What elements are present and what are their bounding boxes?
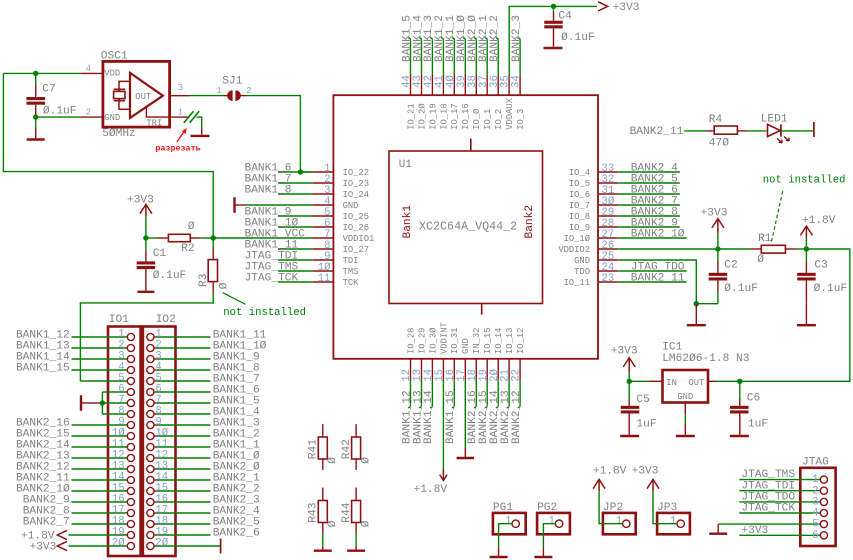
svg-text:C2: C2	[724, 259, 737, 271]
IO2 pin 8	[147, 405, 162, 417]
U1 top pin 38 IO_0	[467, 75, 482, 130]
CPLD U1 XC2C64A_VQ44_2 outer body	[333, 95, 598, 359]
IO2 pin 10	[147, 427, 169, 439]
svg-text:BANK1_15: BANK1_15	[16, 363, 70, 375]
net label BANK1_10 at IO2 pin 2	[157, 341, 267, 353]
svg-text:Bank1: Bank1	[402, 205, 414, 239]
IO2 pin 11	[147, 438, 168, 450]
U1 bottom pin 17 GND	[456, 338, 471, 382]
svg-text:IO_21: IO_21	[406, 103, 416, 129]
net label BANK1_9 at IO2 pin 3	[157, 352, 260, 364]
svg-text:R4: R4	[709, 114, 723, 126]
svg-text:2Ø: 2Ø	[155, 537, 168, 549]
svg-text:BANK2_6: BANK2_6	[213, 528, 260, 540]
svg-text:R2: R2	[181, 243, 194, 255]
net label JTAG_TDO at JTAG pin 3	[739, 492, 820, 504]
U1 right pin 30 IO_7	[569, 196, 618, 211]
ground below C7	[27, 117, 45, 139]
ground below R43	[314, 550, 332, 552]
IO1 pin 8	[118, 405, 134, 417]
JTAG pin 5	[812, 519, 827, 531]
test pad PG2 body	[537, 502, 570, 534]
net label BANK1_6 at IO2 pin 6	[157, 385, 260, 397]
svg-text:BANK2_7: BANK2_7	[23, 517, 70, 529]
wire R3 bottom to IO1 pin5	[80, 293, 213, 381]
net label BANK1_5 at U1 pin 44	[401, 15, 413, 75]
svg-text:1: 1	[549, 516, 555, 528]
ground below C2	[687, 304, 706, 326]
svg-text:R41: R41	[308, 439, 320, 459]
svg-text:IO_5: IO_5	[569, 179, 590, 189]
IO1 pin 4	[118, 361, 134, 373]
U1 Bank1 text	[402, 205, 414, 239]
ground at U1 pin17	[457, 380, 475, 458]
U1 right pin 27 IO_10	[564, 229, 619, 244]
junction SJ1 net at pin1	[298, 169, 303, 174]
+3V3 supply arrow at IO1 pin20	[29, 541, 127, 553]
U1 left pin 4 GND	[312, 196, 358, 211]
svg-text:PG2: PG2	[537, 502, 557, 514]
svg-text:IO_1Ø: IO_1Ø	[564, 234, 591, 244]
IO1 pin 18	[112, 515, 135, 527]
IO1 pin 3	[118, 350, 134, 362]
net label +3V3 at JTAG pin 6	[739, 525, 820, 537]
+3V3 supply arrow above C2	[701, 208, 728, 249]
bracket wire IO1 pins 6-8	[102, 392, 127, 414]
net label JTAG_TCK at JTAG pin 4	[739, 503, 820, 515]
net label BANK2_14 at IO1 pin 11	[16, 440, 127, 452]
ground below C4	[544, 47, 563, 49]
U1 top pin 40 IO_17	[445, 75, 460, 130]
svg-text:C6: C6	[747, 393, 760, 405]
resistor R2 0 ohm	[158, 221, 201, 255]
svg-text:+1.8V: +1.8V	[802, 215, 836, 227]
svg-text:5ØMHz: 5ØMHz	[102, 128, 136, 140]
svg-text:IN: IN	[666, 378, 677, 388]
svg-text:Ø: Ø	[188, 221, 195, 233]
capacitor C2 0.1uF	[709, 249, 758, 304]
svg-text:Ø: Ø	[757, 254, 764, 266]
svg-text:Ø.1uF: Ø.1uF	[43, 105, 77, 117]
svg-text:XC2C64A_VQ44_2: XC2C64A_VQ44_2	[419, 219, 517, 233]
U1 top pin 44 IO_21	[401, 75, 416, 130]
net label BANK2_14 at U1 pin 2Ø	[489, 380, 501, 444]
U1 left pin 1 IO_22	[312, 163, 369, 178]
ground below IC1 GND pin	[676, 415, 695, 436]
test pad JP3 body	[657, 502, 690, 534]
svg-text:IO_27: IO_27	[343, 245, 369, 255]
net label BANK1_2 at U1 pin 41	[434, 15, 446, 75]
svg-text:22: 22	[511, 369, 523, 382]
+3V3 supply arrow top right	[598, 2, 639, 14]
IO1 pin 19	[112, 526, 135, 538]
net label BANK1_8 at U1 pin 3	[245, 184, 313, 196]
net label BANK1_5 at IO2 pin 7	[157, 396, 260, 408]
capacitor C1 0.1uF	[137, 238, 187, 291]
svg-text:+3V3: +3V3	[632, 465, 659, 477]
net label BANK2_11 at IO1 pin 14	[16, 473, 127, 485]
label not installed right	[763, 175, 846, 187]
test pad JP2 body	[603, 502, 636, 534]
svg-text:R44: R44	[341, 502, 353, 522]
junction R2 left +3V3 C1	[143, 235, 148, 240]
svg-text:JTAG_TCK: JTAG_TCK	[245, 272, 299, 284]
svg-text:VDDIO1: VDDIO1	[343, 234, 375, 244]
wire end bar right of LED1	[813, 122, 815, 137]
junction at C7 top	[33, 71, 38, 76]
svg-text:+3V3: +3V3	[29, 541, 56, 553]
net label BANK2_5 at U1 pin 32	[618, 173, 680, 185]
IC1 GND pin	[684, 403, 686, 416]
red arrow razrezat	[177, 128, 187, 142]
svg-text:Ø: Ø	[360, 457, 372, 464]
callout line not installed R1	[772, 189, 784, 242]
svg-text:1: 1	[616, 516, 622, 528]
U1 right pin 28 IO_9	[569, 218, 618, 233]
svg-text:+3V3: +3V3	[611, 346, 638, 358]
svg-text:VDDAUX: VDDAUX	[505, 97, 515, 129]
svg-text:+3V3: +3V3	[127, 195, 154, 207]
net label BANK2_16 at IO1 pin 9	[16, 418, 127, 430]
svg-text:OUT: OUT	[688, 378, 704, 388]
junction R2 right R3 BANK1_VCC	[211, 235, 216, 240]
resistor R3 0 ohm not installed	[198, 238, 231, 293]
wire U1 pin25 GND to C2 ground	[618, 260, 718, 304]
svg-text:IO_23: IO_23	[343, 179, 369, 189]
IO2 pin 13	[147, 460, 168, 472]
IO1 pin 1	[118, 328, 134, 340]
ground below C1	[137, 291, 154, 293]
net label BANK1_13 at IO1 pin 2	[16, 341, 127, 353]
svg-text:IO_29: IO_29	[417, 328, 427, 354]
svg-text:1uF: 1uF	[636, 419, 656, 431]
net label JTAG_TDI at U1 pin 9	[245, 250, 313, 262]
U1 top pin 34 IO_3	[511, 75, 526, 130]
svg-text:IO_14: IO_14	[494, 328, 504, 354]
svg-text:C7: C7	[42, 83, 55, 95]
capacitor C5 1uF	[621, 381, 657, 435]
net label BANK2_8 at IO1 pin 17	[23, 506, 128, 518]
net label BANK1_14 at U1 pin 14	[423, 380, 435, 444]
ground below PG2	[534, 556, 552, 558]
svg-text:Ø: Ø	[327, 520, 339, 527]
wire PG2 to ground	[543, 524, 555, 556]
svg-text:IO_19: IO_19	[428, 103, 438, 129]
net label JTAG_TDO at U1 pin 24	[618, 261, 686, 273]
svg-text:Ø.1uF: Ø.1uF	[724, 283, 758, 295]
svg-text:2: 2	[812, 485, 818, 497]
junction IC1 IN C5	[627, 379, 632, 384]
svg-text:+3V3: +3V3	[741, 525, 768, 537]
net label BANK2_6 at U1 pin 31	[618, 184, 680, 196]
IO1 pin 5	[118, 372, 134, 384]
U1 right pin 26 VDDIO2	[558, 240, 618, 255]
svg-text:Ø: Ø	[327, 457, 339, 464]
svg-text:BANK1_8: BANK1_8	[245, 184, 292, 196]
svg-text:IO_2: IO_2	[494, 109, 504, 130]
svg-text:IO_9: IO_9	[569, 223, 590, 233]
svg-text:IO2: IO2	[156, 314, 176, 326]
IO2 pin 19	[147, 526, 168, 538]
svg-text:BANK2_2: BANK2_2	[489, 15, 501, 62]
svg-text:BANK2_11: BANK2_11	[630, 126, 684, 138]
svg-text:разрезать: разрезать	[155, 143, 200, 153]
svg-text:2Ø: 2Ø	[112, 537, 125, 549]
JTAG pin 6	[812, 530, 827, 542]
net label BANK1_2 at IO2 pin 10	[157, 429, 260, 441]
svg-text:+3V3: +3V3	[701, 208, 728, 220]
svg-text:VDD: VDD	[104, 69, 120, 79]
svg-text:1: 1	[216, 86, 221, 96]
U1 bottom pin 16 IO_31	[445, 328, 460, 382]
net label BANK2_2 at IO2 pin 15	[157, 484, 260, 496]
svg-text:IO_11: IO_11	[564, 278, 590, 288]
U1 bottom pin 22 IO_12	[511, 328, 526, 382]
U1 top pin 39 IO_16	[456, 75, 471, 130]
net label BANK1_0 at IO2 pin 12	[157, 451, 260, 463]
U1 right pin 32 IO_5	[569, 174, 618, 189]
IO2 pin 17	[147, 504, 168, 516]
IO2 pin 3	[147, 350, 162, 362]
IO1 pin 10	[112, 427, 135, 439]
svg-text:GND: GND	[104, 113, 120, 123]
net label BANK1_9 at U1 pin 5	[245, 206, 313, 218]
net label BANK2_7 at IO1 pin 18	[23, 517, 128, 529]
net label BANK1_3 at U1 pin 42	[423, 15, 435, 75]
U1 left pin 10 TMS	[312, 262, 358, 277]
net label BANK2_12 at U1 pin 22	[511, 380, 523, 444]
svg-text:IO_28: IO_28	[406, 328, 416, 354]
net label BANK2_2 at U1 pin 36	[489, 15, 501, 75]
U1 right pin 25 GND	[574, 251, 618, 266]
LED LED1	[761, 114, 790, 143]
svg-text:R42: R42	[341, 439, 353, 459]
U1 top pin 36 IO_2	[489, 75, 504, 130]
U1 bottom pin 13 IO_29	[412, 328, 427, 382]
net label BANK1_11 at IO2 pin 1	[157, 330, 267, 342]
ground at JTAG pin5	[709, 533, 727, 535]
resistor R1 0 ohm	[750, 233, 797, 266]
net label BANK2_12 at IO1 pin 13	[16, 462, 127, 474]
U1 right pin 29 IO_8	[569, 207, 618, 222]
svg-text:GND: GND	[343, 201, 359, 211]
net label JTAG_TDI at JTAG pin 2	[739, 480, 820, 492]
svg-text:GND: GND	[461, 338, 471, 354]
junction R1 right	[804, 246, 809, 251]
svg-text:LED1: LED1	[761, 114, 788, 126]
svg-text:OSC1: OSC1	[101, 51, 128, 63]
+3V3 supply arrow above IC1	[611, 346, 638, 382]
U1 bottom pin 14 IO_30	[423, 327, 438, 382]
svg-text:2: 2	[246, 86, 251, 96]
U1 bottom pin 12 IO_28	[401, 328, 416, 382]
solder jumper SJ1	[216, 76, 251, 101]
IO2 pin 15	[147, 482, 168, 494]
U1 left pin 3 IO_24	[312, 185, 369, 200]
IO2 pin 20	[147, 537, 169, 549]
U1 left pin 6 IO_26	[312, 218, 369, 233]
svg-text:IO_2Ø: IO_2Ø	[417, 103, 427, 130]
svg-text:JP2: JP2	[603, 502, 623, 514]
label not installed left	[223, 307, 306, 319]
test pad PG1 body	[493, 502, 526, 534]
net label BANK1_1 at IO2 pin 11	[157, 440, 260, 452]
svg-text:Ø.1uF: Ø.1uF	[561, 32, 595, 44]
net label BANK1_4 at U1 pin 43	[412, 15, 424, 75]
ground below C5	[620, 435, 639, 437]
capacitor C4 0.1uF	[544, 6, 594, 46]
capacitor C3 0.1uF	[797, 249, 847, 304]
+3V3 supply arrow above C1	[127, 195, 154, 239]
svg-text:IO_3: IO_3	[516, 109, 526, 130]
svg-text:Ø: Ø	[360, 520, 372, 527]
wire +3V3 to IC1 IN	[629, 380, 649, 382]
net label BANK1_15 at IO1 pin 4	[16, 363, 127, 375]
svg-text:not installed: not installed	[763, 175, 846, 187]
junction GND net below C2	[694, 301, 699, 306]
OSC1 pin 3 OUT	[170, 83, 190, 96]
net label BANK1_7 at IO2 pin 5	[157, 374, 260, 386]
svg-text:TMS: TMS	[343, 267, 359, 277]
U1 right pin 23 IO_11	[564, 273, 619, 288]
net label JTAG_TCK at U1 pin 11	[245, 272, 313, 284]
svg-text:IO_Ø: IO_Ø	[472, 108, 482, 130]
svg-text:C1: C1	[153, 248, 167, 260]
oscillator OSC1 50MHz	[101, 51, 170, 141]
svg-text:IO_12: IO_12	[516, 328, 526, 354]
net label BANK2_11 at U1 pin 23	[618, 272, 686, 284]
pin header IO2 body	[143, 314, 176, 556]
IO2 pin 18	[147, 515, 168, 527]
+1.8V supply arrow above C3	[800, 215, 835, 249]
IC1 OUT pin	[708, 380, 716, 382]
wire GND-side loop from OSC pin2 via left rail to R2/R3 junction	[3, 73, 213, 238]
wire +3V3 node to R2	[146, 237, 158, 239]
junction IC1 OUT C6	[737, 379, 742, 384]
net label BANK2_3 at IO2 pin 16	[157, 495, 260, 507]
net label BANK2_13 at IO1 pin 12	[16, 451, 127, 463]
svg-text:IO_17: IO_17	[450, 103, 460, 129]
svg-text:BANK2_12: BANK2_12	[511, 390, 523, 444]
svg-text:IO_16: IO_16	[461, 103, 471, 129]
svg-text:47Ø: 47Ø	[709, 137, 729, 149]
svg-text:BANK1_14: BANK1_14	[423, 390, 435, 444]
IO1 pin 2	[118, 339, 134, 351]
svg-text:LM62Ø6-1.8 N3: LM62Ø6-1.8 N3	[662, 353, 749, 365]
IO1 pin 11	[112, 438, 135, 450]
net label BANK1_3 at IO2 pin 9	[157, 418, 260, 430]
resistor R43 0 ohm	[308, 488, 340, 550]
svg-text:Ø.1uF: Ø.1uF	[814, 283, 848, 295]
net label BANK2_0 at IO2 pin 13	[157, 462, 260, 474]
svg-text:5: 5	[812, 519, 818, 531]
net label BANK2_16 at U1 pin 18	[467, 380, 479, 444]
IO1 pin 15	[112, 482, 135, 494]
OSC1 pin 2 GND	[81, 108, 103, 118]
svg-text:Bank2: Bank2	[524, 205, 536, 239]
U1 right pin 31 IO_6	[569, 185, 618, 200]
IO2 pin 6	[147, 383, 162, 395]
net label BANK2_5 at IO2 pin 18	[157, 517, 260, 529]
IO1 pin 9	[118, 416, 134, 428]
net label BANK1_VCC at U1 pin 7	[213, 228, 312, 240]
net label BANK1_12 at U1 pin 12	[401, 380, 413, 444]
U1 right pin 33 IO_4	[569, 163, 618, 178]
ground below C3	[797, 304, 816, 326]
U1 left pin 8 IO_27	[312, 240, 369, 255]
svg-text:TCK: TCK	[343, 278, 360, 288]
junction IO1 pin7 bracket	[100, 400, 105, 405]
svg-text:Ø.1uF: Ø.1uF	[153, 270, 187, 282]
svg-text:VDDIO2: VDDIO2	[558, 245, 590, 255]
svg-text:IO_22: IO_22	[343, 168, 369, 178]
ground at U1 pin4	[235, 197, 313, 213]
svg-text:IO_6: IO_6	[569, 190, 590, 200]
svg-text:OUT: OUT	[135, 92, 151, 102]
U1 Bank2 text	[524, 205, 536, 239]
ground below PG1	[490, 556, 508, 558]
IO1 pin 14	[112, 471, 135, 483]
junction at C7 bottom	[33, 114, 38, 119]
IO2 pin 14	[147, 471, 168, 483]
svg-text:TRI: TRI	[146, 119, 162, 129]
wire JP2 to +1.8V arrow	[593, 465, 627, 523]
svg-text:BANK2_1Ø: BANK2_1Ø	[631, 228, 685, 240]
net label BANK2_4 at U1 pin 33	[618, 162, 680, 174]
net label BANK2_15 at U1 pin 19	[478, 380, 490, 444]
svg-text:34: 34	[511, 75, 523, 88]
capacitor C7 0.1uF	[26, 73, 76, 117]
U1 left pin 9 TDI	[312, 251, 358, 266]
IO1 pin 12	[112, 449, 135, 461]
junction at C4	[551, 4, 556, 9]
svg-text:1: 1	[670, 516, 676, 528]
svg-text:JTAG_TDI: JTAG_TDI	[741, 480, 795, 492]
resistor R41 0 ohm	[308, 424, 340, 470]
IO2 pin 5	[147, 372, 162, 384]
svg-text:GND: GND	[677, 392, 693, 402]
callout line not installed R3	[223, 293, 246, 305]
wire to IO1 pin5 from R3 net	[80, 380, 127, 382]
net label BANK2_0 at U1 pin 38	[467, 15, 479, 75]
svg-text:IO1: IO1	[109, 314, 129, 326]
svg-text:TDO: TDO	[574, 267, 590, 277]
svg-text:IO_4: IO_4	[569, 168, 590, 178]
svg-text:+1.8V: +1.8V	[593, 465, 627, 477]
wire IO2 pin20 to end stub	[157, 545, 221, 547]
IO1 pin 7	[118, 394, 134, 406]
wire end bar at IO2 pin20	[220, 539, 222, 554]
net label BANK1_8 at IO2 pin 4	[157, 363, 260, 375]
net label BANK1_13 at U1 pin 13	[412, 380, 424, 444]
svg-text:SJ1: SJ1	[222, 76, 242, 88]
net label BANK2_13 at U1 pin 21	[500, 380, 512, 444]
net label BANK1_12 at IO1 pin 1	[16, 330, 127, 342]
IO2 pin 7	[147, 394, 162, 406]
svg-text:4: 4	[86, 64, 91, 74]
wire TRI net with cut marks to ground	[170, 111, 202, 128]
OSC1 pin 1 TRI	[146, 108, 183, 118]
svg-text:BANK1_15: BANK1_15	[445, 390, 457, 444]
svg-text:BANK2_11: BANK2_11	[631, 272, 685, 284]
resistor R44 0 ohm	[341, 488, 373, 550]
IC1 IN pin	[649, 380, 662, 382]
svg-text:IO_24: IO_24	[343, 190, 369, 200]
net label BANK1_14 at IO1 pin 3	[16, 352, 127, 364]
JTAG pin 1	[812, 474, 827, 486]
svg-text:GND: GND	[574, 256, 590, 266]
net label BANK2_15 at IO1 pin 10	[16, 429, 127, 441]
